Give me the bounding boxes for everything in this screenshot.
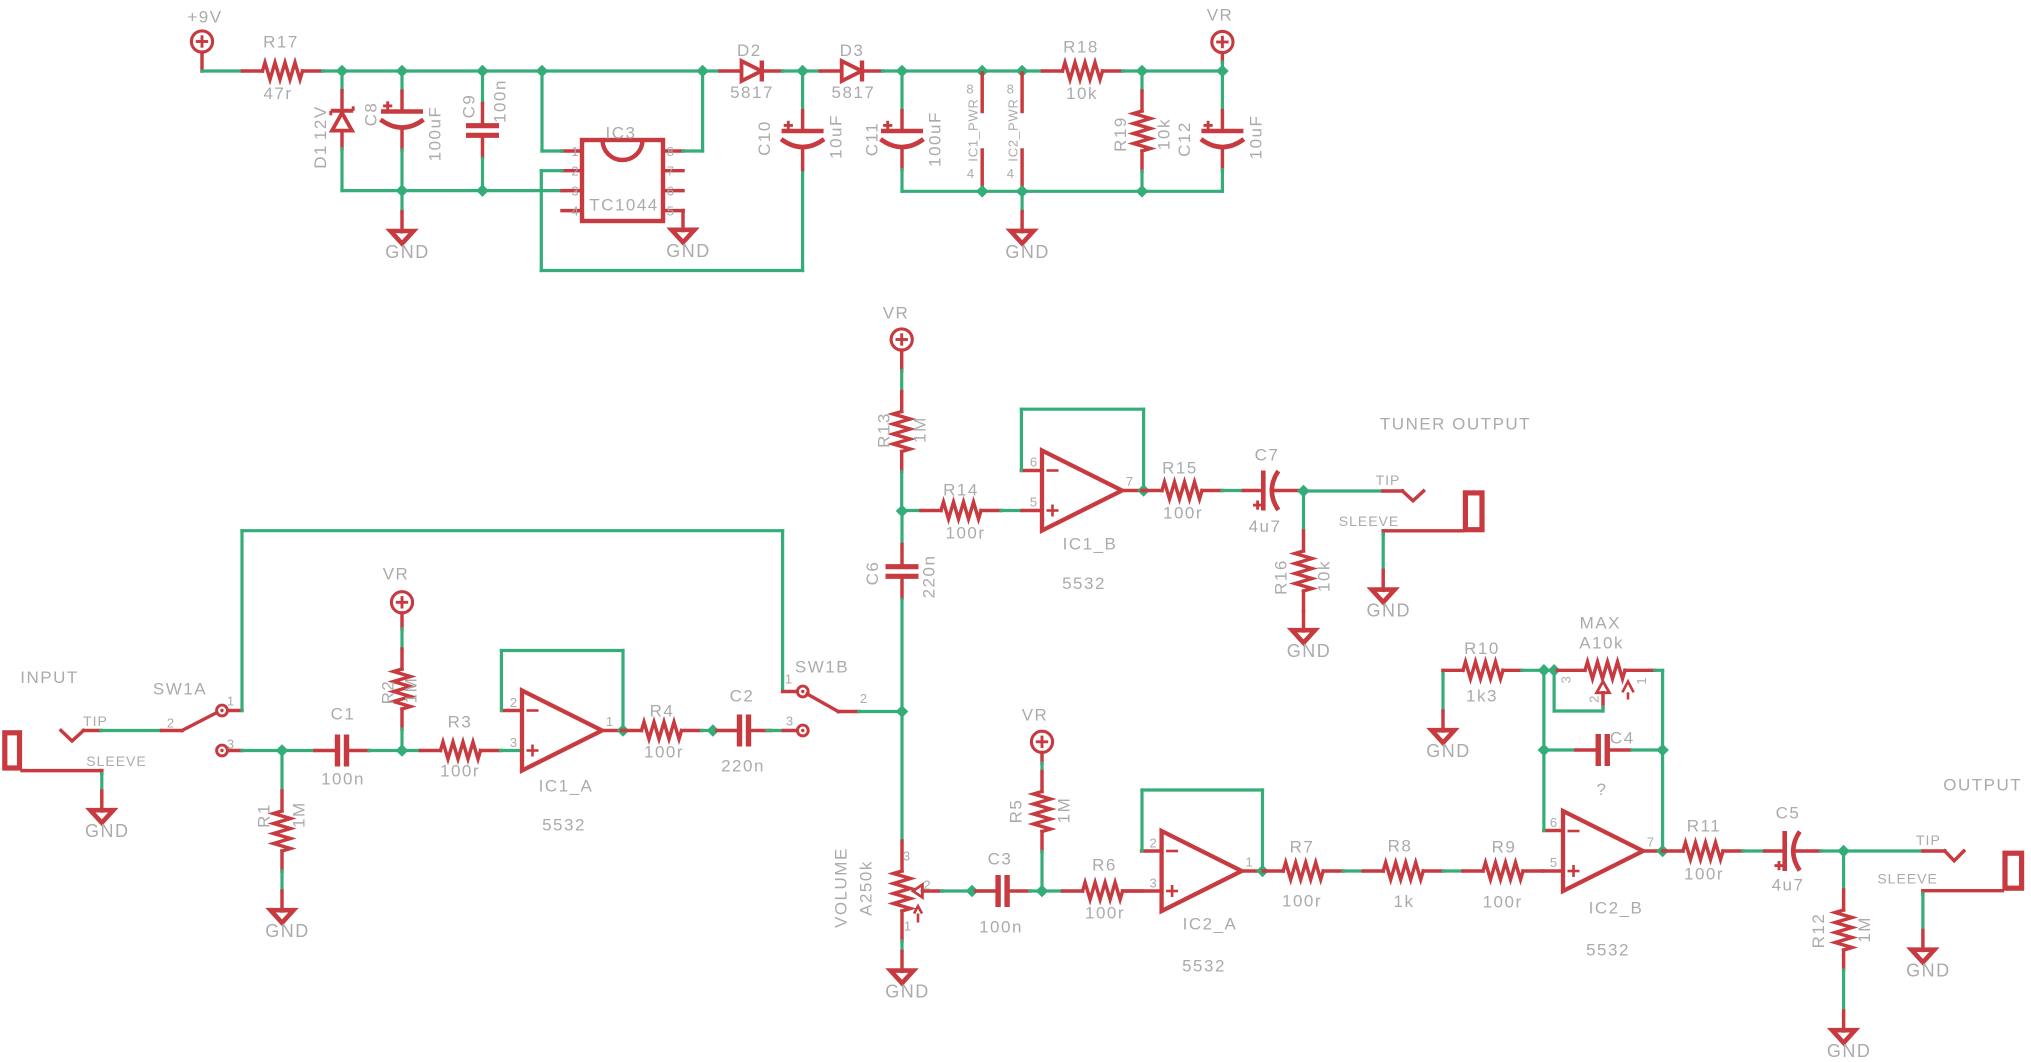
capacitor C11 — [862, 111, 944, 170]
wire — [242, 749, 282, 752]
pin 7 IC1_B — [1122, 474, 1144, 491]
svg-text:R15: R15 — [1162, 459, 1198, 478]
svg-text:5: 5 — [1550, 855, 1558, 870]
node SLEEVE output — [1877, 871, 2002, 894]
svg-text:3: 3 — [1559, 675, 1574, 683]
svg-text:2: 2 — [1587, 695, 1602, 703]
svg-text:GND: GND — [1827, 1041, 1872, 1061]
svg-text:3: 3 — [510, 735, 518, 750]
svg-text:1: 1 — [785, 672, 793, 687]
node TIP tuner — [1376, 472, 1424, 501]
wire — [400, 150, 403, 191]
wire — [340, 149, 343, 191]
ground — [265, 891, 310, 941]
svg-text:C11: C11 — [862, 122, 881, 156]
node junction C11 — [896, 65, 907, 76]
wire — [501, 651, 623, 731]
resistor R8 — [1363, 837, 1443, 912]
wire — [972, 889, 995, 892]
svg-text:R12: R12 — [1809, 913, 1828, 949]
wire — [1743, 849, 1765, 852]
pin 6 IC2_B — [1544, 815, 1563, 831]
jack tuner output — [1380, 415, 1531, 530]
pin 2 IC3 — [562, 164, 582, 179]
node junction C4 left — [1538, 744, 1549, 755]
wire — [1040, 852, 1043, 892]
svg-text:R11: R11 — [1687, 817, 1721, 836]
svg-text:1k3: 1k3 — [1466, 687, 1498, 706]
capacitor C9 — [460, 79, 510, 157]
node junction C9 — [477, 65, 488, 76]
node junction R2 C1 — [396, 745, 407, 756]
svg-text:4u7: 4u7 — [1772, 876, 1805, 895]
resistor R4 — [622, 702, 702, 762]
pin 3 SW1B — [783, 714, 797, 731]
svg-text:1: 1 — [606, 714, 614, 729]
wire — [882, 69, 902, 72]
wire — [280, 871, 283, 891]
svg-text:2: 2 — [923, 878, 931, 893]
wire — [1443, 869, 1463, 872]
supply +9V — [187, 8, 222, 72]
svg-text:7: 7 — [1647, 835, 1655, 850]
resistor R16 — [1272, 531, 1334, 611]
svg-text:1M: 1M — [1055, 797, 1074, 824]
switch SW1B lever — [795, 658, 849, 712]
switch SW1B contact 1 — [785, 672, 808, 697]
wire — [541, 169, 802, 270]
wire — [369, 749, 402, 752]
supply VR input — [383, 565, 413, 630]
wire — [982, 69, 1022, 72]
svg-text:5817: 5817 — [831, 83, 875, 102]
svg-text:C9: C9 — [460, 94, 479, 119]
node junction R19 gnd — [1136, 186, 1147, 197]
svg-text:1M: 1M — [290, 801, 309, 828]
wire — [1299, 489, 1383, 492]
wire — [1221, 62, 1224, 71]
wire — [242, 531, 783, 711]
svg-text:GND: GND — [1005, 242, 1050, 262]
svg-text:R19: R19 — [1111, 116, 1130, 152]
wire — [1842, 970, 1845, 1011]
wire — [342, 189, 562, 192]
wire — [900, 511, 903, 544]
svg-text:R13: R13 — [875, 412, 894, 448]
svg-text:R5: R5 — [1007, 799, 1026, 824]
svg-text:100r: 100r — [644, 743, 684, 762]
svg-text:C4: C4 — [1610, 729, 1635, 748]
svg-text:VR: VR — [383, 565, 410, 584]
node junction pwr1 gnd — [977, 186, 988, 197]
switch SW1A contact 3 — [217, 737, 236, 756]
ground — [666, 211, 711, 261]
svg-text:100r: 100r — [1684, 865, 1724, 884]
svg-text:R6: R6 — [1092, 856, 1117, 875]
svg-text:R7: R7 — [1290, 838, 1315, 857]
node junction D1 — [336, 65, 347, 76]
wire — [1022, 69, 1042, 72]
wire — [1921, 893, 1924, 930]
wire — [481, 71, 484, 103]
resistor R10 — [1443, 639, 1522, 706]
svg-text:R2: R2 — [379, 680, 398, 705]
svg-text:R14: R14 — [943, 481, 979, 500]
wire — [902, 69, 982, 72]
resistor R2 — [379, 649, 421, 729]
wire — [1522, 669, 1544, 672]
node junction C4 right — [1657, 744, 1668, 755]
svg-text:4u7: 4u7 — [1249, 517, 1282, 536]
node junction IC2_A out — [1257, 865, 1268, 876]
wire — [483, 69, 543, 72]
capacitor C4 — [1576, 729, 1635, 799]
capacitor C10 — [755, 111, 845, 170]
wire — [400, 191, 403, 212]
svg-text:3: 3 — [571, 183, 579, 198]
pin 5 IC3 — [663, 203, 683, 218]
wire — [400, 629, 403, 649]
svg-text:5532: 5532 — [1062, 574, 1106, 593]
node junction C9 gnd — [477, 185, 488, 196]
node junction R13 R14 C6 — [896, 505, 907, 516]
wire — [1544, 669, 1554, 672]
svg-text:100r: 100r — [1085, 904, 1125, 923]
svg-text:GND: GND — [1366, 601, 1411, 621]
switch SW1A lever — [153, 680, 217, 731]
svg-text:IC1_B: IC1_B — [1063, 535, 1118, 554]
wire — [202, 69, 243, 72]
wire — [900, 71, 903, 111]
wire — [1844, 849, 1923, 852]
wire — [859, 710, 902, 713]
svg-text:D3: D3 — [840, 41, 865, 60]
node junction IC2_PWR — [1017, 65, 1028, 76]
wire — [100, 774, 103, 791]
wire — [481, 159, 484, 191]
wire — [1040, 763, 1043, 772]
resistor R6 — [1063, 856, 1143, 923]
resistor R3 — [421, 713, 501, 781]
wire — [900, 169, 903, 191]
wire — [801, 71, 804, 111]
svg-text:GND: GND — [385, 242, 430, 262]
svg-text:3: 3 — [786, 714, 794, 729]
svg-text:7: 7 — [1126, 474, 1134, 489]
wire — [1222, 489, 1244, 492]
op-amp IC3 body TC1044 — [582, 124, 663, 222]
wire — [541, 169, 562, 172]
svg-text:GND: GND — [666, 241, 711, 261]
ground — [885, 951, 930, 1001]
svg-text:1: 1 — [1634, 676, 1649, 684]
svg-text:220n: 220n — [721, 757, 765, 776]
svg-text:1: 1 — [904, 919, 912, 934]
node junction pot wiper — [966, 885, 977, 896]
svg-text:TUNER OUTPUT: TUNER OUTPUT — [1380, 415, 1531, 434]
capacitor C8 — [362, 91, 445, 161]
svg-text:10uF: 10uF — [826, 114, 845, 159]
wire — [1042, 889, 1063, 892]
wire — [501, 749, 523, 752]
svg-text:VR: VR — [1022, 706, 1049, 725]
svg-text:SLEEVE: SLEEVE — [86, 753, 146, 769]
wire — [1140, 71, 1143, 91]
potentiometer VOLUME A250k — [832, 841, 942, 941]
node junction C7 out — [1298, 485, 1309, 496]
wire — [902, 190, 1222, 193]
svg-text:SLEEVE: SLEEVE — [1339, 513, 1399, 529]
wire — [1221, 169, 1224, 191]
svg-text:IC2_PWR: IC2_PWR — [1005, 98, 1020, 161]
jack input — [5, 668, 79, 768]
svg-text:5532: 5532 — [542, 816, 586, 835]
svg-text:220n: 220n — [920, 555, 939, 599]
resistor R15 — [1142, 459, 1222, 523]
svg-text:1M: 1M — [402, 677, 421, 704]
svg-text:1: 1 — [571, 144, 579, 159]
capacitor C3 — [976, 850, 1030, 937]
svg-text:4: 4 — [967, 166, 975, 181]
svg-text:SW1A: SW1A — [153, 680, 207, 699]
svg-text:GND: GND — [265, 921, 310, 941]
wire — [900, 472, 903, 512]
pin 3 SW1A — [228, 749, 242, 752]
wire — [1142, 790, 1263, 871]
svg-text:7: 7 — [667, 164, 675, 179]
svg-text:100r: 100r — [1282, 892, 1322, 911]
supply VR mid — [883, 304, 913, 371]
op-amp IC1_A — [522, 691, 602, 835]
op-amp IC1_B — [1042, 451, 1122, 594]
wire — [400, 71, 403, 91]
resistor R18 — [1043, 38, 1123, 104]
svg-text:100uF: 100uF — [426, 106, 445, 162]
svg-text:VR: VR — [1207, 6, 1234, 25]
ground — [385, 212, 430, 262]
resistor R14 — [921, 481, 1001, 543]
diode D2 — [720, 41, 782, 102]
wire — [1302, 491, 1305, 531]
svg-text:VR: VR — [883, 304, 910, 323]
svg-text:A250k: A250k — [857, 860, 876, 916]
wire — [713, 729, 737, 732]
ground — [1005, 212, 1050, 262]
pin 1 IC2_A — [1242, 854, 1263, 871]
wire — [1343, 869, 1363, 872]
ground — [1827, 1011, 1872, 1061]
wire — [282, 749, 315, 752]
svg-text:INPUT: INPUT — [20, 668, 79, 687]
svg-text:6: 6 — [667, 183, 675, 198]
wire — [1021, 409, 1143, 490]
svg-text:TIP: TIP — [83, 713, 108, 729]
svg-text:1M: 1M — [911, 416, 930, 443]
svg-text:C10: C10 — [755, 120, 774, 156]
wire — [1030, 889, 1043, 892]
pin 1 IC3 — [562, 144, 582, 159]
svg-text:D1: D1 — [311, 144, 330, 169]
svg-text:IC1_PWR: IC1_PWR — [965, 98, 980, 161]
svg-text:10k: 10k — [1155, 118, 1174, 150]
pin 3 IC3 — [562, 183, 582, 198]
node junction C5 out — [1838, 845, 1849, 856]
wire — [1441, 670, 1444, 711]
svg-text:10uF: 10uF — [1246, 115, 1265, 160]
node junction R19 — [1136, 65, 1147, 76]
node TIP input — [61, 713, 108, 741]
node junction IC1_B out — [1138, 485, 1149, 496]
svg-text:GND: GND — [1426, 741, 1471, 761]
wire — [902, 509, 921, 512]
capacitor C7 — [1243, 446, 1299, 537]
svg-text:C7: C7 — [1255, 446, 1280, 465]
svg-text:SLEEVE: SLEEVE — [1877, 871, 1937, 887]
svg-text:GND: GND — [85, 821, 130, 841]
svg-text:IC3: IC3 — [606, 124, 637, 143]
pin 3 IC1_A — [510, 735, 518, 750]
svg-text:8: 8 — [667, 144, 675, 159]
node junction C3 R5 R6 — [1036, 885, 1047, 896]
node junction R10 C4 — [1538, 665, 1549, 676]
resistor R19 — [1111, 91, 1174, 171]
capacitor C1 — [315, 705, 369, 789]
svg-text:1M: 1M — [1855, 916, 1874, 943]
svg-text:OUTPUT: OUTPUT — [1943, 776, 2022, 795]
diode D3 — [820, 41, 882, 102]
wire — [400, 729, 403, 751]
svg-text:10k: 10k — [1066, 84, 1098, 103]
resistor R12 — [1809, 890, 1874, 970]
svg-text:6: 6 — [1030, 455, 1038, 470]
wire — [803, 69, 821, 72]
wire — [1123, 69, 1143, 72]
wire — [767, 729, 783, 732]
wire — [702, 729, 713, 732]
wire — [1142, 69, 1222, 72]
svg-text:?: ? — [1597, 780, 1608, 799]
svg-text:C5: C5 — [1776, 804, 1801, 823]
svg-text:R17: R17 — [263, 33, 299, 52]
svg-text:2: 2 — [167, 716, 175, 731]
node junction C10 — [797, 65, 808, 76]
node SLEEVE input — [22, 753, 147, 774]
wire — [900, 600, 903, 712]
wire — [1001, 509, 1022, 512]
svg-text:C3: C3 — [988, 850, 1013, 869]
svg-text:4: 4 — [1007, 166, 1015, 181]
svg-text:12V: 12V — [311, 105, 330, 140]
node junction R4 C2 — [707, 725, 718, 736]
svg-text:MAX: MAX — [1580, 613, 1621, 632]
pin 2 IC2_A — [1142, 836, 1162, 852]
wire — [542, 69, 703, 72]
ground — [1906, 931, 1951, 981]
node junction VR rail — [1217, 65, 1228, 76]
wire — [1821, 849, 1844, 852]
svg-text:5532: 5532 — [1182, 957, 1226, 976]
svg-text:IC1_A: IC1_A — [539, 777, 594, 796]
svg-text:2: 2 — [1149, 836, 1157, 851]
svg-text:R8: R8 — [1388, 837, 1413, 856]
ground — [1366, 570, 1411, 620]
wire — [900, 371, 903, 392]
pin 1 IC1_A — [602, 714, 623, 731]
svg-text:R3: R3 — [448, 713, 473, 732]
wire — [900, 941, 903, 951]
node SLEEVE tuner — [1339, 513, 1463, 534]
svg-text:2: 2 — [571, 164, 579, 179]
IC2_PWR power pins — [1005, 73, 1022, 191]
svg-text:100n: 100n — [491, 79, 510, 123]
wire — [1632, 748, 1663, 751]
capacitor C5 — [1765, 804, 1821, 895]
pin 8 IC3 — [663, 144, 683, 159]
svg-text:GND: GND — [1906, 961, 1951, 981]
wire — [1554, 669, 1557, 672]
switch SW1B contact 3 — [797, 725, 808, 736]
potentiometer MAX A10k — [1557, 613, 1655, 707]
wire — [1140, 171, 1143, 191]
svg-text:A10k: A10k — [1579, 634, 1624, 653]
svg-text:3: 3 — [1149, 876, 1157, 891]
wire — [402, 69, 483, 72]
wire — [340, 71, 343, 91]
wire — [1544, 748, 1573, 751]
svg-text:SW1B: SW1B — [795, 658, 849, 677]
svg-text:C2: C2 — [730, 687, 755, 706]
svg-text:R18: R18 — [1063, 38, 1099, 57]
pin 3 IC2_A — [1123, 876, 1162, 892]
svg-text:R1: R1 — [255, 803, 274, 828]
svg-text:R4: R4 — [650, 702, 675, 721]
wire — [1542, 670, 1545, 830]
resistor R13 — [875, 392, 930, 472]
node junction pot wiper MAX — [1549, 665, 1560, 676]
wire — [402, 749, 421, 752]
node junction C8 — [396, 65, 407, 76]
supply VR R5 — [1022, 706, 1053, 764]
wire — [1554, 670, 1603, 711]
svg-text:TIP: TIP — [1376, 472, 1401, 488]
svg-text:100r: 100r — [1163, 504, 1203, 523]
svg-text:1: 1 — [227, 694, 235, 709]
jack output — [1943, 776, 2022, 889]
pin 6 IC1_B — [1021, 455, 1042, 471]
wire — [1382, 534, 1385, 571]
svg-text:5817: 5817 — [730, 83, 774, 102]
node junction IC1_A out — [617, 725, 628, 736]
svg-text:6: 6 — [1550, 815, 1558, 830]
svg-text:C1: C1 — [331, 705, 356, 724]
svg-text:GND: GND — [1287, 641, 1332, 661]
resistor R11 — [1663, 817, 1743, 884]
wire — [1020, 191, 1023, 211]
svg-text:1k: 1k — [1394, 892, 1415, 911]
op-amp IC2_B — [1563, 811, 1643, 960]
svg-text:C8: C8 — [362, 102, 381, 127]
node junction pwr2 gnd — [1017, 186, 1028, 197]
svg-text:100n: 100n — [979, 918, 1023, 937]
svg-text:GND: GND — [885, 982, 930, 1002]
svg-text:5: 5 — [667, 203, 675, 218]
svg-text:VOLUME: VOLUME — [832, 847, 851, 928]
wire — [1221, 71, 1224, 111]
node junction R1 — [276, 745, 287, 756]
svg-text:2: 2 — [510, 695, 518, 710]
svg-text:C6: C6 — [863, 561, 882, 586]
pin 1 SW1B — [783, 690, 797, 693]
